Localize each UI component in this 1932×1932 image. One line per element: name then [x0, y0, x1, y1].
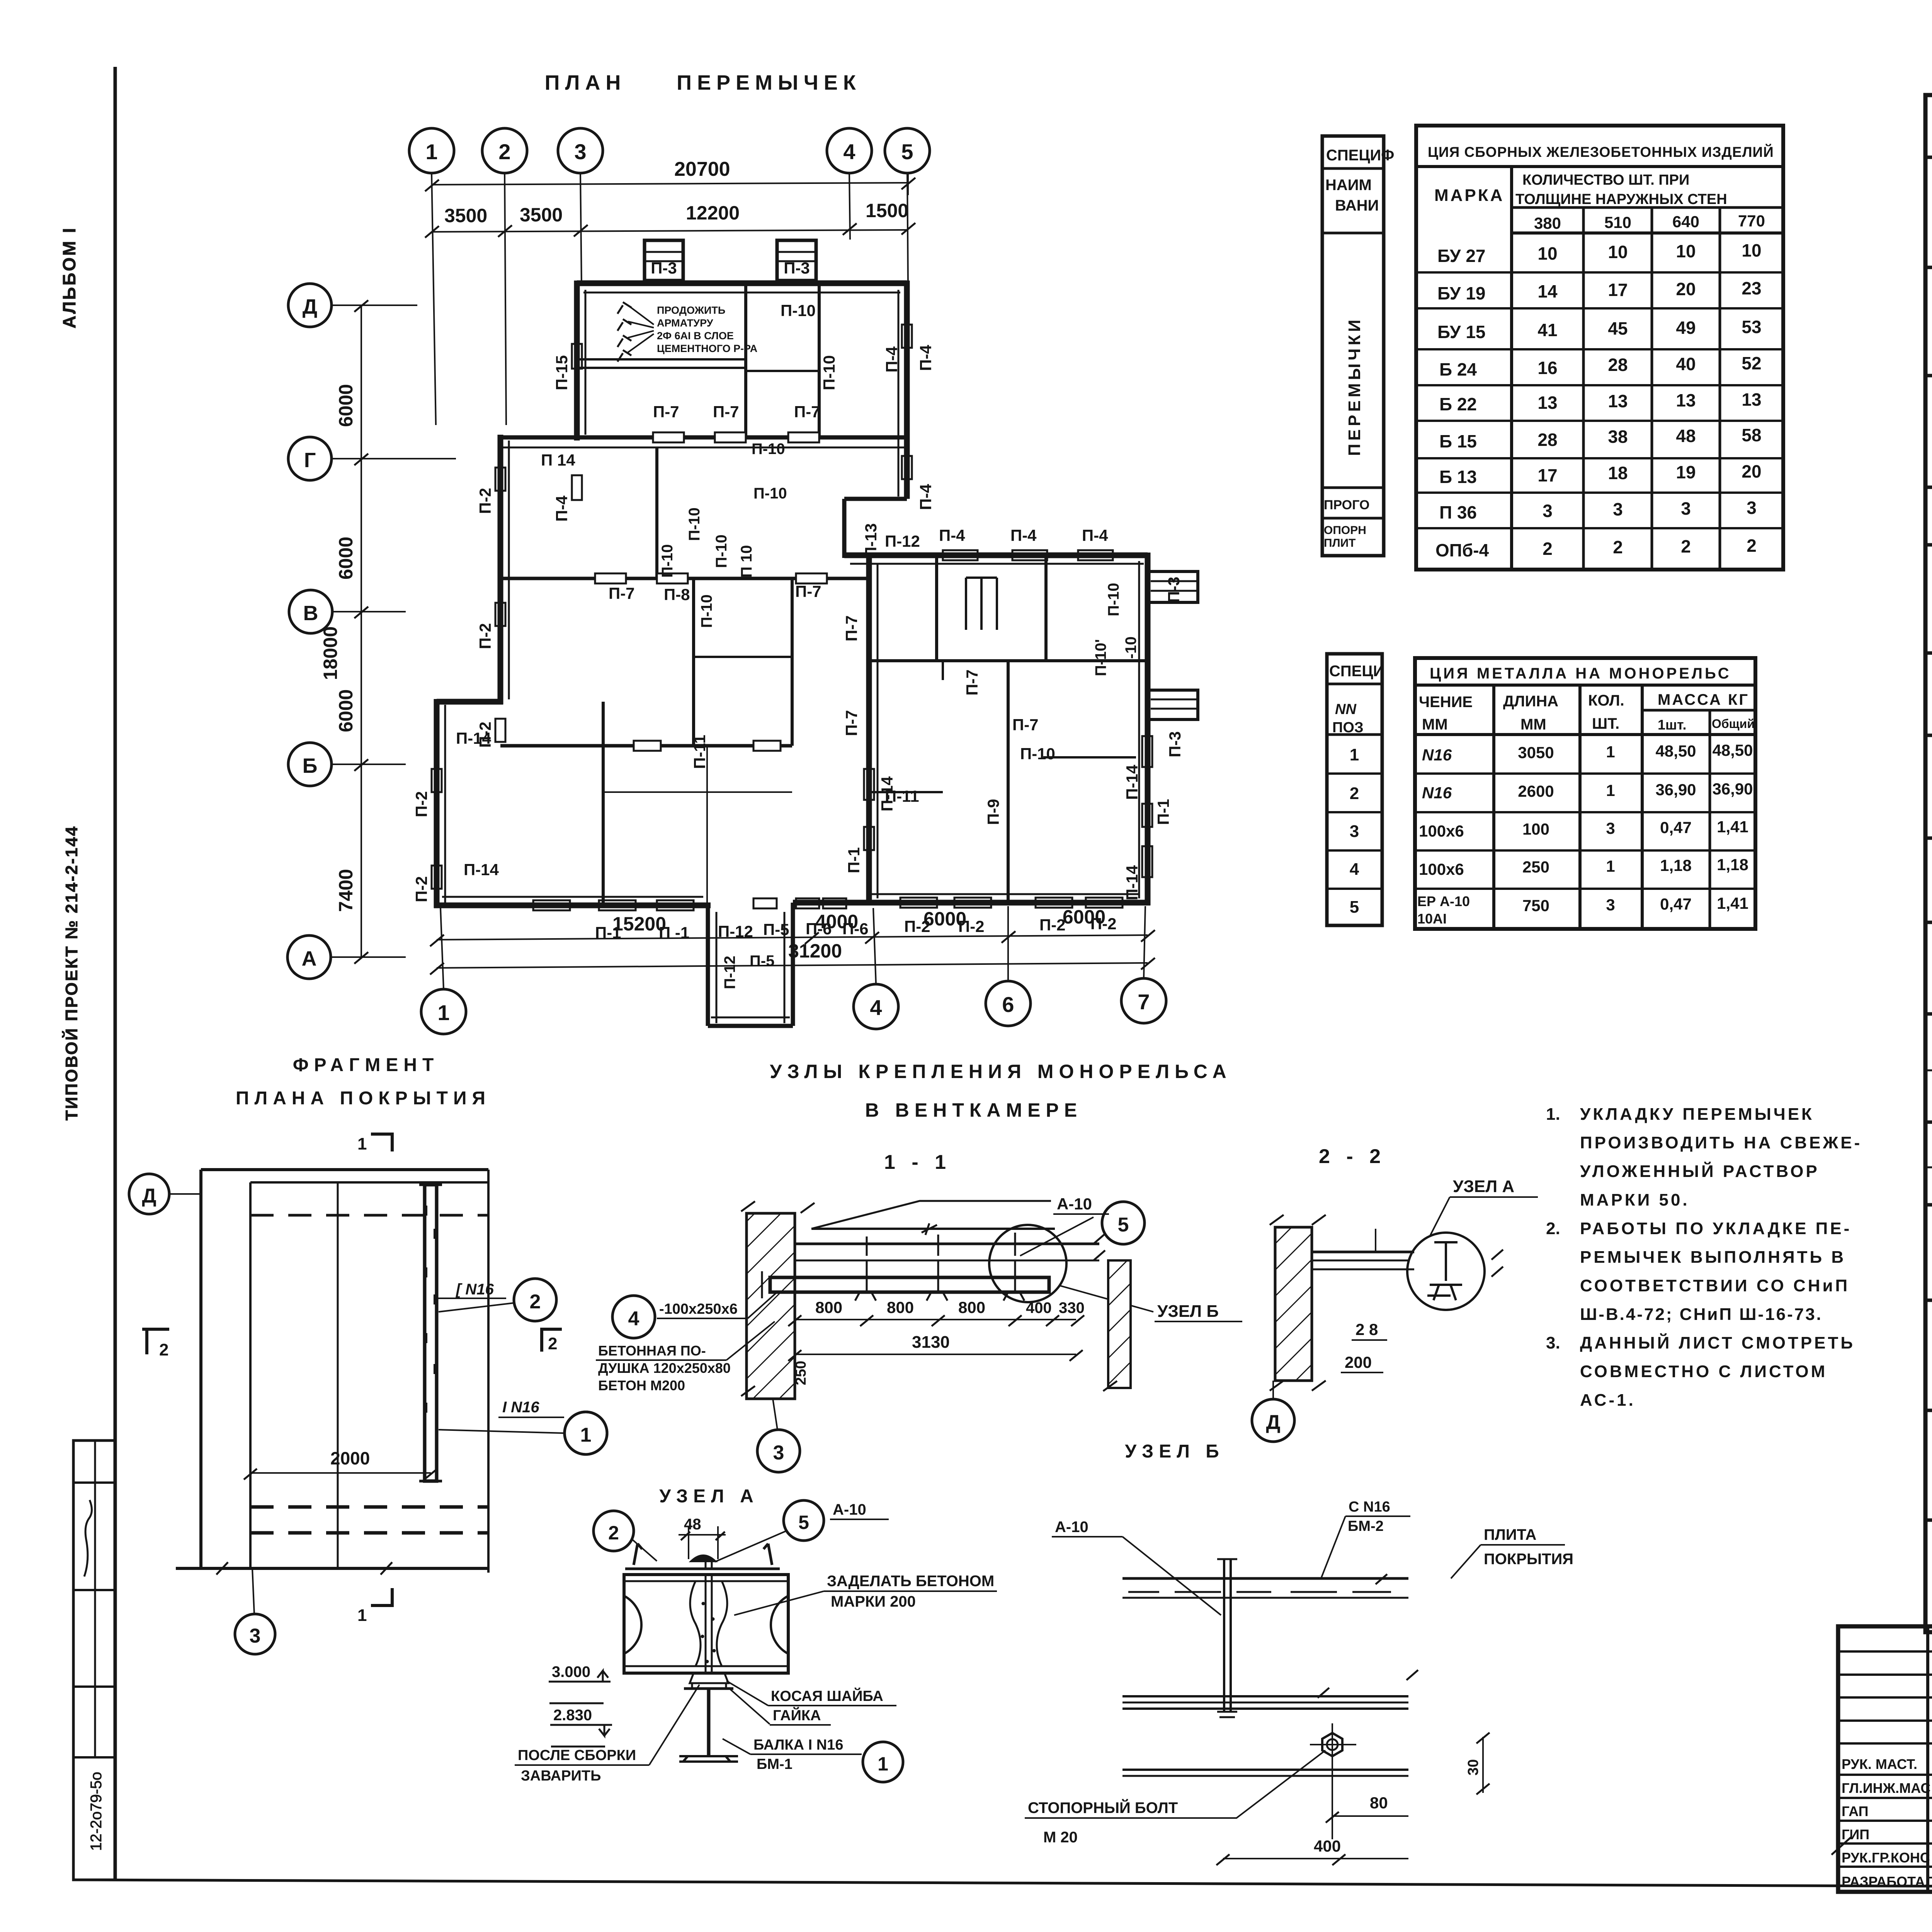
title block signatories [1842, 1756, 1932, 1889]
bottom dim line 31200 [437, 963, 1148, 968]
bottom dim line row1 [437, 935, 1148, 940]
partition M1 [818, 283, 821, 437]
small partition lines lower-left [603, 791, 792, 793]
svg-text:Б 24: Б 24 [1439, 359, 1477, 379]
svg-text:П-4: П-4 [917, 345, 935, 371]
svg-text:Б 22: Б 22 [1439, 394, 1477, 414]
svg-text:ПОСЛЕ СБОРКИ: ПОСЛЕ СБОРКИ [518, 1747, 636, 1764]
svg-text:ЧЕНИЕ: ЧЕНИЕ [1419, 694, 1473, 711]
grid circle 4 bottom [854, 984, 898, 1029]
svg-text:П 36: П 36 [1439, 502, 1477, 522]
svg-text:ЦИЯ МЕТАЛЛА НА МОНОРЕЛЬС: ЦИЯ МЕТАЛЛА НА МОНОРЕЛЬС [1430, 665, 1731, 682]
lintel P-2 d [432, 769, 442, 792]
grid circle B left [288, 743, 332, 786]
svg-text:ПЕРЕМЫЧКИ: ПЕРЕМЫЧКИ [1345, 316, 1364, 456]
svg-text:1: 1 [357, 1134, 367, 1153]
leader arrows to rebar marks [628, 305, 654, 352]
svg-text:3: 3 [1606, 819, 1615, 837]
svg-text:1: 1 [1606, 781, 1615, 799]
svg-text:-10: -10 [1122, 636, 1139, 659]
svg-text:45: 45 [1608, 318, 1628, 338]
step wall M2-M3 [437, 699, 503, 705]
svg-text:18000: 18000 [320, 626, 341, 680]
row BU27 [1435, 240, 1762, 560]
svg-text:36,90: 36,90 [1712, 780, 1753, 798]
svg-text:3050: 3050 [1518, 743, 1554, 762]
svg-text:3500: 3500 [444, 205, 487, 226]
grid circle 1 top [409, 128, 454, 173]
svg-text:П-4: П-4 [939, 526, 965, 544]
s11 callout circle 5 [1102, 1202, 1145, 1244]
svg-text:П-14: П-14 [464, 861, 499, 879]
svg-text:3: 3 [1747, 498, 1757, 518]
svg-text:МАССА КГ: МАССА КГ [1658, 691, 1749, 708]
svg-text:БМ-1: БМ-1 [757, 1756, 793, 1772]
sheet left border line [114, 67, 117, 1880]
svg-text:П-13: П-13 [862, 523, 880, 558]
svg-text:NN: NN [1335, 701, 1357, 718]
svg-text:52: 52 [1742, 353, 1761, 373]
grid line 1 [432, 173, 436, 425]
wing bottom wall [866, 900, 1150, 906]
svg-text:УЗЕЛ Б: УЗЕЛ Б [1125, 1441, 1224, 1462]
svg-text:1: 1 [1350, 745, 1359, 764]
svg-text:100х6: 100х6 [1419, 860, 1464, 878]
svg-text:6000: 6000 [923, 908, 966, 930]
svg-text:УЗЛЫ КРЕПЛЕНИЯ МОНОРЕЛЬ: УЗЛЫ КРЕПЛЕНИЯ МОНОРЕЛЬСА [770, 1061, 1232, 1082]
s11 hanger bolts [855, 1236, 877, 1301]
step wall to M2 [498, 435, 503, 704]
svg-text:38: 38 [1608, 427, 1628, 447]
svg-text:250: 250 [793, 1361, 809, 1385]
grid circle 4 top [827, 128, 872, 173]
svg-text:АС-1.: АС-1. [1580, 1391, 1636, 1410]
svg-text:28: 28 [1537, 430, 1557, 450]
svg-text:58: 58 [1742, 425, 1761, 445]
vent block left [706, 905, 710, 1026]
svg-text:2 8: 2 8 [1355, 1320, 1378, 1338]
svg-text:19: 19 [1676, 462, 1696, 482]
outer wall top M1 [577, 281, 907, 286]
svg-text:1500: 1500 [866, 200, 908, 221]
svg-text:100х6: 100х6 [1419, 822, 1464, 840]
svg-text:3: 3 [1543, 501, 1553, 521]
svg-text:БУ 19: БУ 19 [1437, 283, 1485, 303]
lintel P-4 wing c [1078, 550, 1113, 560]
title block left columns [1926, 1626, 1929, 1892]
svg-text:УЗЕЛ А: УЗЕЛ А [659, 1486, 759, 1507]
bottom lintels P-2 wing [900, 898, 937, 908]
svg-text:80: 80 [1370, 1794, 1388, 1812]
svg-text:П-14: П-14 [878, 776, 896, 811]
svg-text:4: 4 [628, 1308, 639, 1330]
svg-text:3: 3 [1350, 822, 1359, 841]
svg-text:ПОКРЫТИЯ: ПОКРЫТИЯ [1484, 1551, 1573, 1568]
svg-text:2.: 2. [1546, 1219, 1560, 1238]
svg-text:ПРОИЗВОДИТЬ НА СВЕЖЕ-: ПРОИЗВОДИТЬ НА СВЕЖЕ- [1580, 1133, 1862, 1152]
svg-text:ПРОГО: ПРОГО [1324, 498, 1369, 512]
svg-text:2: 2 [498, 139, 510, 164]
svg-text:Д: Д [303, 295, 317, 318]
svg-text:20700: 20700 [674, 158, 730, 180]
svg-text:5: 5 [1350, 898, 1359, 917]
section mark 1 top [371, 1134, 392, 1151]
svg-text:14: 14 [1537, 281, 1558, 301]
svg-text:4000: 4000 [815, 911, 858, 932]
svg-text:БУ 15: БУ 15 [1437, 322, 1485, 342]
s11 dim 3130 [795, 1354, 1076, 1355]
svg-text:П-1: П-1 [1154, 799, 1172, 825]
svg-text:40: 40 [1676, 354, 1696, 374]
svg-text:ОПб-4: ОПб-4 [1435, 540, 1489, 560]
svg-text:П-3: П-3 [784, 259, 810, 277]
svg-text:УЛОЖЕННЫЙ РАСТВОР: УЛОЖЕННЫЙ РАСТВОР [1580, 1161, 1820, 1181]
svg-text:6000: 6000 [335, 537, 357, 580]
svg-text:ММ: ММ [1422, 716, 1448, 733]
precast concrete spec table main [1416, 126, 1783, 570]
svg-text:БМ-2: БМ-2 [1348, 1518, 1384, 1534]
svg-text:100: 100 [1522, 820, 1549, 838]
svg-text:П-10: П-10 [659, 544, 676, 578]
svg-text:ЦИЯ СБОРНЫХ ЖЕЛЕЗОБЕТОННЫХ ИЗД: ЦИЯ СБОРНЫХ ЖЕЛЕЗОБЕТОННЫХ ИЗДЕЛИЙ [1428, 144, 1774, 160]
svg-text:АРМАТУРУ: АРМАТУРУ [657, 317, 714, 329]
svg-text:П-3: П-3 [651, 259, 677, 277]
svg-text:2000: 2000 [330, 1448, 370, 1468]
break marks on bottom wall [216, 1562, 232, 1575]
svg-text:13: 13 [1742, 389, 1761, 410]
svg-text:2: 2 [1350, 784, 1359, 803]
svg-text:15200: 15200 [612, 913, 666, 935]
svg-text:41: 41 [1537, 320, 1557, 340]
left margin stamp strip [73, 1440, 115, 1880]
svg-text:П-2: П-2 [412, 876, 430, 902]
svg-text:ЕР А-10: ЕР А-10 [1417, 893, 1470, 909]
partition M1 small [746, 370, 819, 372]
svg-text:800: 800 [958, 1298, 985, 1316]
svg-text:ДЛИНА: ДЛИНА [1503, 693, 1558, 710]
svg-text:П-4: П-4 [553, 495, 571, 522]
svg-text:П-14: П-14 [1123, 764, 1141, 800]
svg-text:П-10: П-10 [820, 355, 838, 390]
svg-text:РАЗРАБОТАЛ: РАЗРАБОТАЛ [1842, 1874, 1932, 1889]
svg-text:17: 17 [1608, 280, 1628, 300]
svg-text:2: 2 [1613, 537, 1623, 557]
grid circle 2 top [482, 128, 527, 173]
svg-text:П-7: П-7 [795, 582, 821, 600]
svg-text:23: 23 [1742, 278, 1761, 298]
svg-text:2: 2 [1681, 536, 1691, 556]
svg-text:3130: 3130 [912, 1333, 950, 1352]
svg-text:П-7: П-7 [842, 615, 861, 641]
uzel A I-beam below [707, 1689, 711, 1756]
svg-text:П-12: П-12 [885, 532, 920, 550]
svg-text:УЗЕЛ А: УЗЕЛ А [1453, 1177, 1514, 1196]
stairs marks [965, 578, 967, 630]
svg-text:П-5: П-5 [750, 952, 774, 969]
svg-text:250: 250 [1522, 858, 1549, 876]
grid circle D left [288, 284, 332, 327]
lintel P-2 b [495, 603, 505, 626]
svg-text:10: 10 [1676, 241, 1696, 261]
svg-text:БЕТОН М200: БЕТОН М200 [598, 1378, 685, 1393]
svg-text:3: 3 [1606, 896, 1615, 914]
monorail metal spec table main [1415, 658, 1755, 929]
svg-text:П-2: П-2 [476, 623, 494, 649]
vent block bottom [708, 1024, 793, 1028]
svg-text:7: 7 [1138, 990, 1150, 1014]
svg-text:2: 2 [1747, 536, 1757, 556]
uzel A nut and washer [690, 1673, 728, 1689]
svg-text:-100х250х6: -100х250х6 [659, 1301, 738, 1317]
svg-text:48: 48 [684, 1516, 701, 1533]
svg-text:1: 1 [357, 1606, 367, 1625]
uzel B beam flange lines [1122, 1695, 1408, 1697]
svg-text:Ш-В.4-72; СНиП Ш-16-73.: Ш-В.4-72; СНиП Ш-16-73. [1580, 1305, 1823, 1324]
label P-4 right wall c [902, 456, 912, 479]
lintel mark P-15 [572, 344, 582, 369]
svg-text:УКЛАДКУ ПЕРЕМЫЧЕК: УКЛАДКУ ПЕРЕМЫЧЕК [1580, 1105, 1814, 1124]
svg-text:53: 53 [1742, 317, 1761, 337]
svg-text:П-1: П-1 [845, 847, 863, 873]
uzel A channel top [634, 1544, 772, 1565]
uzel A slab section [624, 1575, 788, 1673]
lintel P-14 wing right a [1142, 736, 1152, 767]
svg-text:МАРКИ 200: МАРКИ 200 [831, 1593, 916, 1610]
dim line 3500/3500/12200/1500 [432, 230, 908, 232]
svg-text:М 20: М 20 [1043, 1829, 1078, 1846]
wing top wall [844, 553, 1148, 558]
svg-text:СООТВЕТСТВИИ СО СНиП: СООТВЕТСТВИИ СО СНиП [1580, 1276, 1850, 1295]
monorail metal spec table left strip [1327, 654, 1382, 925]
wing inner partial walls [869, 791, 943, 793]
svg-text:17: 17 [1537, 465, 1557, 485]
svg-text:2Ф 6АI В СЛОЕ: 2Ф 6АI В СЛОЕ [657, 330, 734, 342]
svg-text:48: 48 [1676, 426, 1696, 446]
svg-text:П-11: П-11 [690, 735, 709, 769]
svg-text:П-10: П-10 [686, 507, 703, 541]
svg-text:31200: 31200 [788, 940, 842, 962]
svg-text:П-7: П-7 [794, 403, 820, 421]
stamp strip signature squiggle [84, 1500, 92, 1577]
svg-text:ПЕРЕМЫЧЕК: ПЕРЕМЫЧЕК [677, 71, 861, 94]
svg-text:3: 3 [773, 1442, 784, 1464]
s11 callout 3 [757, 1430, 800, 1472]
svg-text:1 - 1: 1 - 1 [884, 1151, 951, 1173]
svg-text:ГАЙКА: ГАЙКА [773, 1706, 821, 1724]
svg-text:3500: 3500 [520, 204, 563, 226]
uzel B stopper bolt circle [1322, 1733, 1342, 1756]
svg-text:П-4: П-4 [1082, 526, 1108, 544]
grid circle 6 bottom [986, 981, 1031, 1026]
spec row boundary lines [1925, 266, 1932, 269]
title block outer box [1838, 1626, 1932, 1892]
svg-text:0,47: 0,47 [1660, 818, 1692, 837]
grid line 3 [580, 173, 582, 286]
svg-text:10: 10 [1537, 243, 1557, 264]
svg-text:1шт.: 1шт. [1658, 717, 1687, 733]
svg-text:СПЕЦИ: СПЕЦИ [1329, 663, 1384, 680]
wing left wall [866, 553, 872, 903]
svg-text:П-7: П-7 [963, 669, 981, 696]
svg-text:П-2: П-2 [476, 488, 494, 514]
wall under corridor [500, 577, 869, 580]
svg-text:5: 5 [798, 1512, 809, 1533]
svg-text:1: 1 [878, 1753, 888, 1775]
grid circle A left [287, 935, 331, 979]
svg-text:12200: 12200 [686, 202, 740, 224]
svg-text:П-7: П-7 [713, 403, 739, 421]
grid circle 5 top [885, 128, 930, 173]
svg-text:4: 4 [870, 995, 882, 1020]
svg-text:ГЛ.ИНЖ.МАС: ГЛ.ИНЖ.МАС [1842, 1780, 1930, 1796]
svg-text:2: 2 [1543, 539, 1553, 559]
svg-text:А: А [302, 947, 317, 970]
svg-text:П-2: П-2 [412, 791, 430, 817]
svg-text:П-4: П-4 [917, 484, 935, 510]
svg-text:СОВМЕСТНО С ЛИСТОМ: СОВМЕСТНО С ЛИСТОМ [1580, 1362, 1827, 1381]
chimney stub P-3 left [645, 240, 683, 281]
section mark 2 right [542, 1329, 562, 1352]
svg-text:800: 800 [887, 1298, 914, 1316]
svg-text:П-10: П-10 [781, 301, 816, 320]
svg-text:2: 2 [159, 1340, 168, 1359]
svg-text:СТОПОРНЫЙ БОЛТ: СТОПОРНЫЙ БОЛТ [1028, 1799, 1178, 1816]
svg-text:[ N16: [ N16 [455, 1281, 494, 1298]
svg-text:2: 2 [548, 1334, 557, 1353]
svg-text:ГАП: ГАП [1842, 1803, 1869, 1819]
grid circle 1 bottom [421, 989, 466, 1034]
svg-text:РУК.ГР.КОНС: РУК.ГР.КОНС [1842, 1850, 1930, 1866]
wing right wall [1145, 553, 1151, 905]
svg-text:Д: Д [1266, 1411, 1280, 1434]
svg-text:ЗАДЕЛАТЬ БЕТОНОМ: ЗАДЕЛАТЬ БЕТОНОМ [827, 1573, 994, 1590]
outer wall M3 bottom [434, 903, 711, 908]
svg-text:2: 2 [608, 1522, 619, 1544]
grid line 4 [849, 173, 850, 240]
svg-text:П-9: П-9 [984, 799, 1002, 825]
grid circle G left [288, 437, 332, 480]
vent chamber wall inner [744, 283, 747, 437]
lintel P-1 wing left [864, 827, 874, 850]
svg-text:П-10: П-10 [713, 534, 730, 568]
lintel P-14 wing left [864, 769, 874, 800]
uzel B slab top [1122, 1577, 1408, 1580]
svg-text:N16: N16 [1422, 746, 1452, 764]
svg-text:13: 13 [1608, 391, 1628, 411]
svg-text:П-14: П-14 [456, 729, 492, 747]
fragment dashed lines bottom [250, 1505, 488, 1509]
outer wall M3 left [434, 699, 440, 908]
svg-text:1: 1 [580, 1424, 592, 1446]
svg-text:400: 400 [1314, 1837, 1341, 1855]
svg-text:П-10: П-10 [1105, 583, 1122, 616]
lintel P-4 wing b [1012, 550, 1047, 560]
svg-text:ММ: ММ [1520, 716, 1546, 733]
svg-text:Б: Б [303, 754, 318, 777]
uzel B lower lines [1122, 1769, 1408, 1771]
svg-text:6: 6 [1002, 992, 1014, 1017]
svg-text:ТОЛЩИНЕ НАРУЖНЫХ СТЕН: ТОЛЩИНЕ НАРУЖНЫХ СТЕН [1515, 191, 1727, 207]
svg-text:П-7: П-7 [653, 403, 679, 421]
svg-text:ТИПОВОЙ ПРОЕКТ № 214-2-144: ТИПОВОЙ ПРОЕКТ № 214-2-144 [61, 825, 81, 1121]
svg-text:10АI: 10АI [1417, 911, 1447, 927]
svg-text:N16: N16 [1422, 784, 1452, 802]
svg-text:Б 13: Б 13 [1439, 467, 1477, 487]
grid circle 7 bottom [1121, 978, 1166, 1023]
2-2 plate lines right of wall [1312, 1260, 1408, 1262]
s11 left wall hatched [747, 1213, 795, 1399]
precast concrete spec table left strip [1322, 136, 1384, 556]
wing top room partitions [935, 555, 938, 661]
outer wall M1 left [574, 281, 580, 440]
svg-text:БУ 27: БУ 27 [1437, 246, 1485, 266]
s22 wall hatched [1275, 1227, 1312, 1381]
grid line 5 [907, 173, 908, 286]
svg-text:П-3: П-3 [1165, 577, 1183, 603]
lintel P-2 e [432, 866, 442, 889]
svg-text:4: 4 [1350, 860, 1359, 879]
svg-text:П-10: П-10 [1020, 745, 1055, 763]
svg-text:10: 10 [1608, 242, 1628, 262]
room P14 right wall [655, 447, 658, 578]
svg-text:16: 16 [1537, 358, 1557, 378]
spec header row [1925, 156, 1932, 159]
svg-text:18: 18 [1608, 463, 1628, 483]
svg-text:П-7: П-7 [842, 710, 861, 736]
svg-text:А-10: А-10 [833, 1501, 866, 1518]
svg-text:1: 1 [1606, 743, 1615, 761]
uzel A bolt through [706, 1561, 712, 1569]
svg-text:4: 4 [843, 139, 855, 164]
s11 monorail beam [770, 1277, 1049, 1292]
s11 callout 1 [565, 1412, 607, 1454]
uzel A callout 5 + A-10 [784, 1500, 824, 1541]
svg-text:РЕМЫЧЕК ВЫПОЛНЯТЬ В: РЕМЫЧЕК ВЫПОЛНЯТЬ В [1580, 1248, 1846, 1267]
svg-text:Общий: Общий [1712, 717, 1755, 731]
svg-text:П-2: П-2 [1039, 916, 1066, 934]
svg-text:48,50: 48,50 [1712, 741, 1753, 759]
svg-text:ОПОРН: ОПОРН [1324, 524, 1366, 537]
svg-text:3.000: 3.000 [552, 1663, 590, 1680]
svg-text:1.: 1. [1546, 1105, 1560, 1124]
svg-text:П-3: П-3 [1166, 731, 1184, 757]
svg-text:10: 10 [1742, 240, 1761, 260]
svg-text:36,90: 36,90 [1655, 781, 1696, 799]
svg-text:20: 20 [1742, 461, 1761, 481]
svg-text:30: 30 [1465, 1759, 1481, 1776]
svg-text:1: 1 [1606, 857, 1615, 875]
svg-text:П-10: П-10 [753, 485, 787, 502]
svg-text:А-10: А-10 [1057, 1195, 1092, 1213]
svg-text:770: 770 [1738, 212, 1765, 230]
svg-text:6000: 6000 [335, 689, 357, 732]
s22 grid circle D [1252, 1399, 1294, 1442]
svg-text:П-7: П-7 [609, 584, 635, 602]
svg-text:2.830: 2.830 [553, 1707, 592, 1724]
svg-text:6000: 6000 [335, 384, 357, 427]
svg-text:П-10': П-10' [1092, 639, 1109, 676]
svg-text:200: 200 [1345, 1353, 1372, 1371]
svg-text:ПЛАН: ПЛАН [545, 71, 626, 94]
connector left wall [842, 499, 847, 558]
svg-text:49: 49 [1676, 318, 1696, 338]
svg-text:400: 400 [1026, 1299, 1052, 1316]
svg-text:3: 3 [1613, 499, 1623, 519]
lintel P-2 c [495, 719, 505, 742]
svg-text:1,41: 1,41 [1717, 894, 1748, 912]
svg-text:6000: 6000 [1063, 906, 1105, 928]
s11 slab line [795, 1243, 1099, 1245]
